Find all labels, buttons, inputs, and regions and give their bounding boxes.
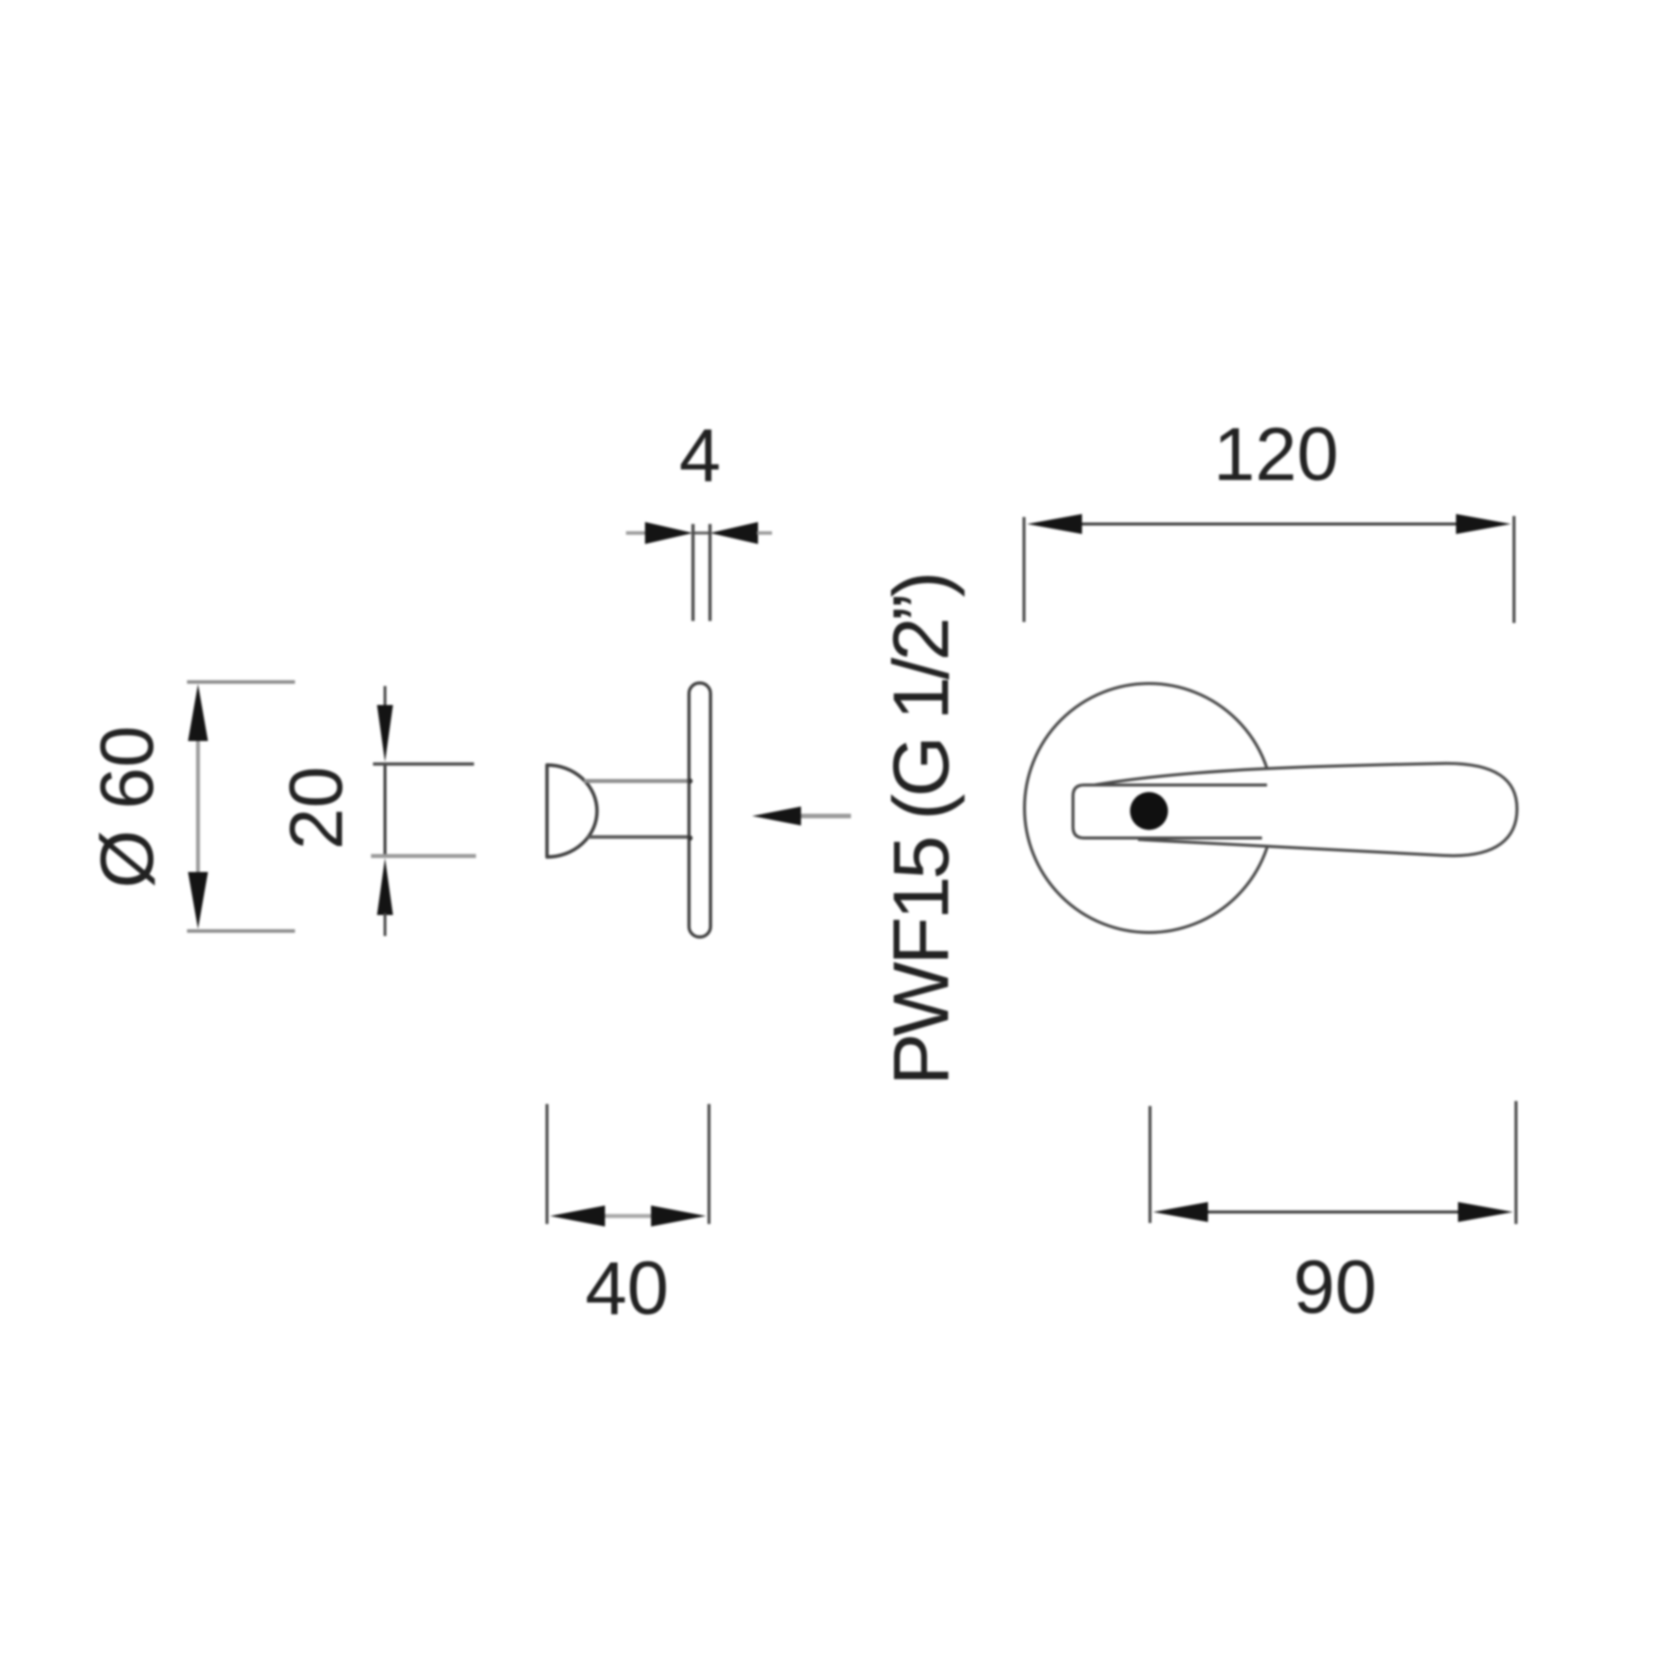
left extension line: [546, 1104, 549, 1224]
lever body outline: [1083, 763, 1517, 855]
left arrow outward: [550, 1206, 605, 1227]
left arrow: [1153, 1202, 1208, 1222]
left arrow: [1027, 514, 1082, 534]
right arrow: [710, 522, 758, 544]
top arrow up: [188, 684, 208, 741]
svg-text:120: 120: [1213, 412, 1338, 496]
bottom extension line: [187, 929, 295, 933]
lower shaft: [384, 913, 387, 936]
connector between extension lines: [693, 532, 710, 535]
rosette circle: [1025, 684, 1274, 933]
top extension line: [373, 762, 474, 765]
left tail dash: [626, 531, 646, 534]
dim shaft: [196, 740, 200, 872]
left arrow: [645, 522, 693, 544]
bottom arrow up: [377, 858, 393, 915]
arrow shaft: [796, 814, 851, 818]
stem bottom line: [587, 835, 689, 839]
wall plate side view: [689, 683, 711, 937]
junction dots: [687, 778, 692, 783]
screw dot: [1130, 792, 1168, 830]
extension line right: [708, 524, 711, 621]
right arrow: [1456, 514, 1511, 534]
upper shaft: [384, 686, 387, 710]
svg-text:4: 4: [679, 413, 721, 497]
lever neck: [1073, 785, 1267, 838]
svg-text:20: 20: [274, 766, 358, 849]
handle knob side view: [547, 765, 597, 857]
right extension line: [708, 1104, 711, 1224]
lever body fill (hides circle arc): [1083, 763, 1517, 855]
svg-text:90: 90: [1293, 1245, 1376, 1329]
bottom arrow down: [188, 872, 208, 929]
dim line: [1075, 523, 1462, 526]
right arrow: [1458, 1202, 1513, 1222]
right tail dash: [757, 531, 772, 534]
left extension line: [1023, 517, 1026, 622]
dim line: [1200, 1211, 1462, 1214]
bottom extension line: [371, 854, 476, 858]
middle shaft: [600, 1214, 656, 1218]
right extension line: [1513, 516, 1516, 623]
right extension line: [1515, 1101, 1518, 1224]
middle dim line: [384, 763, 387, 857]
svg-text:PWF15 (G 1/2”): PWF15 (G 1/2”): [876, 574, 965, 1085]
top arrow down: [377, 705, 393, 762]
left extension line: [1149, 1106, 1152, 1223]
arrow head: [752, 807, 801, 826]
top extension line: [187, 680, 295, 684]
right arrow outward: [651, 1206, 706, 1227]
svg-text:Ø 60: Ø 60: [85, 726, 169, 889]
stem top line: [584, 779, 689, 783]
svg-text:40: 40: [585, 1246, 668, 1330]
extension line left: [691, 524, 694, 621]
